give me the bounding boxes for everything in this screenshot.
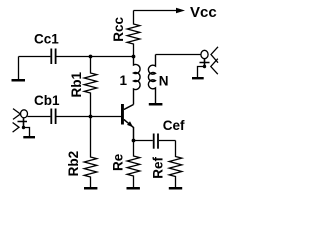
wire Cef to Ref bbox=[159, 140, 176, 142]
transistor Q1 emitter bbox=[124, 120, 134, 141]
port P1 (input) circle bbox=[21, 110, 28, 118]
capacitor Cc1 bbox=[50, 49, 56, 65]
wire top rail mid segment bbox=[57, 56, 91, 58]
svg-text:Vcc: Vcc bbox=[190, 4, 217, 21]
svg-text:Re: Re bbox=[110, 153, 125, 171]
svg-text:N: N bbox=[159, 74, 169, 89]
port P1 upper bracket bbox=[13, 109, 20, 120]
transistor Q1 collector bbox=[124, 105, 134, 110]
port P2 upper bracket bbox=[211, 47, 218, 63]
capacitor Cb1 bbox=[50, 109, 56, 125]
ground (Ref) bbox=[169, 187, 182, 190]
svg-text:Rb1: Rb1 bbox=[69, 72, 84, 98]
wire Cb1 to base node bbox=[57, 116, 91, 118]
node D (emitter junction) bbox=[132, 139, 136, 143]
port P2 lower bracket bbox=[211, 59, 218, 74]
svg-text:1: 1 bbox=[120, 73, 128, 88]
resistor Rb2 bbox=[84, 117, 97, 188]
ground (secondary) bbox=[149, 103, 163, 106]
resistor Rb1 bbox=[84, 57, 97, 117]
svg-text:Ref: Ref bbox=[150, 157, 165, 179]
ground (top-left) bbox=[18, 57, 20, 80]
wire secondary to output bbox=[156, 54, 201, 56]
transformer secondary winding N bbox=[148, 55, 155, 104]
svg-text:Rcc: Rcc bbox=[111, 17, 126, 42]
node A (rail / Rb1 junction) bbox=[89, 55, 93, 59]
svg-text:Cc1: Cc1 bbox=[34, 32, 59, 47]
port P2 stem and T-bar bbox=[200, 59, 210, 67]
wire P1 to ground bbox=[24, 128, 30, 137]
node C (base junction) bbox=[89, 115, 93, 119]
port P2 (output) circle bbox=[201, 50, 208, 58]
port P1 stem and T-bar bbox=[18, 118, 28, 128]
ground (P1) bbox=[23, 136, 35, 138]
svg-text:Rb2: Rb2 bbox=[66, 151, 81, 177]
resistor Re bbox=[127, 141, 140, 188]
svg-text:Cb1: Cb1 bbox=[34, 93, 60, 108]
wire top rail left segment bbox=[19, 56, 51, 58]
resistor Rcc bbox=[127, 11, 140, 57]
port P1 lower bracket bbox=[13, 123, 19, 133]
resistor Ref bbox=[169, 141, 182, 188]
ground (Rb2) bbox=[84, 187, 97, 190]
transistor Q1 emitter arrow bbox=[127, 121, 133, 127]
wire P1 to Cb1 bbox=[27, 116, 50, 118]
Vcc arrow bbox=[176, 8, 185, 14]
wire emitter to Cef bbox=[134, 140, 153, 142]
ground (P2) bbox=[192, 77, 204, 79]
svg-text:Cef: Cef bbox=[163, 118, 185, 133]
ground (Re) bbox=[127, 187, 140, 190]
wire top rail right segment bbox=[91, 56, 134, 58]
port P1 node dot bbox=[22, 126, 25, 129]
node B (Rcc / coil junction) bbox=[132, 55, 136, 59]
capacitor Cef bbox=[153, 134, 159, 149]
transformer primary winding 1 bbox=[134, 57, 141, 105]
port P2 node dot bbox=[203, 65, 206, 68]
wire P2 to ground bbox=[198, 67, 205, 78]
wire Vcc feed bbox=[134, 10, 177, 12]
transistor Q1 base bar bbox=[121, 104, 124, 125]
wire base bbox=[91, 116, 122, 118]
